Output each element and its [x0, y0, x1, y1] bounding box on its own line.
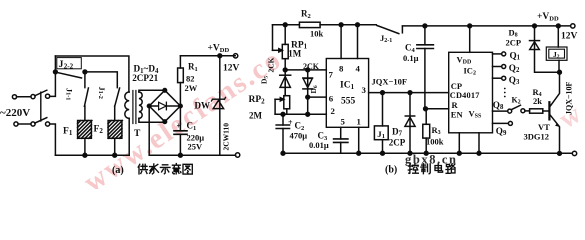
IC1 555 box — [326, 59, 368, 128]
wire RP1 to D5 — [283, 68, 287, 72]
label + C1 — [177, 121, 197, 132]
svg-text:VDD: VDD — [457, 55, 472, 66]
label + C2 — [288, 118, 304, 132]
+VDD terminal right — [571, 24, 575, 28]
label J1-1 rotated — [65, 88, 74, 100]
wire from upper switch to J2-2 node — [50, 56, 56, 96]
capacitor C1 — [179, 106, 181, 131]
transformer T secondary winding — [139, 92, 142, 118]
svg-text:470μ: 470μ — [290, 131, 308, 141]
relay contact J1-1 — [84, 88, 88, 106]
label D7 — [392, 126, 403, 137]
svg-text:2k: 2k — [533, 96, 542, 106]
bridge vertex junction dots — [163, 89, 167, 93]
top rail right segment (+VDD) — [402, 25, 570, 27]
label D6 rotated — [309, 85, 319, 93]
svg-text:Q8: Q8 — [493, 100, 504, 111]
svg-text:R3: R3 — [432, 125, 441, 136]
main switch upper blade — [35, 90, 47, 96]
svg-text:+: + — [288, 118, 293, 127]
svg-text:RP2: RP2 — [249, 95, 266, 105]
svg-text:7: 7 — [329, 70, 334, 80]
output terminal lower — [235, 153, 239, 157]
resistor R1 — [178, 68, 184, 83]
label R1 — [188, 62, 198, 73]
wire top rail of mains section — [55, 56, 128, 92]
label IC1 — [340, 81, 355, 91]
label 2CP (D7) — [389, 137, 406, 147]
top rail left segment (555 side) — [273, 24, 377, 26]
wire pin6 row — [308, 96, 327, 98]
svg-text:2W: 2W — [185, 83, 198, 93]
wire primary bottom — [128, 118, 130, 155]
svg-text:+VDD: +VDD — [208, 44, 230, 55]
svg-text:12V: 12V — [223, 64, 240, 74]
label RP2 — [249, 95, 266, 105]
bridge rectifier D1-D4 diamond — [149, 90, 180, 121]
relay contact J2-1 — [377, 26, 399, 34]
svg-text:+: + — [177, 122, 182, 131]
label 2M — [249, 110, 263, 120]
svg-text:EN: EN — [451, 110, 464, 120]
output Q1 — [493, 53, 502, 55]
AC source terminal lower — [14, 122, 18, 126]
svg-text:0.1μ: 0.1μ — [403, 53, 419, 63]
svg-text:VT: VT — [538, 122, 550, 132]
wire upper pole — [17, 96, 31, 98]
label 0.01u — [309, 140, 329, 150]
+VDD terminal — [233, 54, 237, 58]
svg-text:6: 6 — [329, 94, 334, 104]
caption hanzi kong zhi dian lu (drawn) — [408, 164, 455, 174]
svg-text:2: 2 — [331, 106, 336, 116]
relay coil J2 — [557, 26, 559, 47]
output Q9 — [493, 122, 509, 124]
wire secondary bottom to bridge — [139, 118, 165, 122]
label +VDD — [208, 44, 230, 55]
output Q3 — [493, 77, 502, 79]
caption hanzi gong shui shi yi tu (drawn) — [138, 164, 192, 175]
label D5 rotated — [260, 76, 270, 84]
svg-text:J2-1: J2-1 — [380, 33, 392, 44]
svg-text:IC1: IC1 — [340, 81, 355, 91]
svg-text:J: J — [59, 59, 64, 70]
svg-text:Q2: Q2 — [509, 63, 520, 74]
svg-text:10k: 10k — [310, 29, 324, 39]
switch K2 — [508, 109, 512, 113]
svg-text:D6: D6 — [309, 85, 319, 93]
label DW — [195, 101, 211, 111]
capacitor C2 — [282, 114, 284, 125]
svg-text:CP: CP — [451, 81, 462, 91]
resistor R2 — [299, 22, 320, 27]
label 2CK (D6) — [303, 62, 320, 71]
ellipsis dots — [504, 88, 506, 98]
potentiometer RP2 — [275, 98, 281, 100]
label RP1 — [291, 40, 308, 50]
svg-text:R1: R1 — [188, 62, 198, 73]
main switch lower contact circles — [31, 122, 35, 126]
label 1M — [288, 48, 302, 58]
IC2 CD4017 box — [449, 52, 493, 133]
wire J1-2 to F2 — [114, 106, 116, 121]
caption (b) — [385, 165, 397, 176]
wire pin4 to rail — [357, 25, 359, 59]
wire F2 to bottom rail — [114, 138, 116, 155]
svg-text:JQX−10F: JQX−10F — [372, 77, 408, 87]
svg-text:J1: J1 — [377, 129, 385, 140]
svg-text:8: 8 — [339, 64, 344, 74]
wire J1-1 to F1 — [84, 106, 86, 121]
svg-text:T: T — [134, 129, 141, 139]
bottom rail section b — [283, 152, 572, 154]
resistor R3 — [424, 107, 428, 111]
bottom rail rectifier side — [149, 154, 235, 156]
solenoid F2 — [108, 121, 122, 139]
label J1-2 rotated — [97, 87, 106, 99]
svg-text:2CW110: 2CW110 — [222, 123, 231, 151]
svg-text:D7: D7 — [392, 126, 403, 137]
label 100k — [426, 137, 444, 147]
svg-text:1M: 1M — [288, 48, 302, 58]
caption (a) — [112, 165, 124, 176]
label J2-2 — [59, 59, 74, 70]
wire lower switch to bottom rail — [50, 124, 56, 155]
label R3 — [432, 125, 441, 136]
label JQX-10F — [372, 77, 408, 87]
wire bridge minus to bottom rail — [148, 106, 150, 155]
svg-text:3DG12: 3DG12 — [524, 132, 550, 142]
label R2 — [301, 9, 311, 20]
label 555 — [341, 97, 356, 107]
svg-text:R2: R2 — [301, 9, 311, 20]
main switch lower blade — [35, 118, 47, 124]
AC source terminal upper ~220V — [12, 95, 16, 99]
label 82 — [186, 74, 195, 84]
svg-text:Q1: Q1 — [510, 50, 521, 61]
bottom rail mains side — [55, 154, 129, 156]
label 2CP21 — [132, 73, 158, 83]
svg-text:(b): (b) — [385, 165, 397, 176]
wire F1 to bottom rail — [84, 138, 86, 155]
wire F1 branch top — [84, 72, 86, 88]
svg-text:1: 1 — [357, 117, 361, 127]
wire pins 2-6 tie — [307, 97, 309, 114]
diode D5 — [280, 74, 291, 76]
capacitor C3 — [334, 139, 348, 143]
wire VDD pin — [469, 26, 471, 52]
capacitor C4 — [424, 26, 426, 45]
IC2 labels — [450, 55, 482, 120]
wire pin7 row — [285, 69, 326, 71]
svg-text:12V: 12V — [561, 32, 578, 42]
label D1~D4 — [134, 64, 159, 75]
svg-text:25V: 25V — [188, 142, 204, 152]
label 220u — [187, 133, 205, 143]
watermark pink diagonal text — [78, 43, 585, 199]
wire secondary top to bridge — [139, 90, 165, 92]
wire pin2 row — [308, 113, 327, 115]
svg-text:0.01μ: 0.01μ — [309, 140, 329, 150]
wire lower pole — [18, 123, 31, 125]
label J2-1 — [380, 33, 392, 44]
svg-text:2CP: 2CP — [506, 38, 522, 48]
label 0.1u — [403, 53, 419, 63]
main switch linkage — [40, 92, 42, 121]
svg-text:IC2: IC2 — [464, 66, 476, 77]
label 10k — [310, 29, 324, 39]
transformer core — [133, 91, 136, 124]
svg-text:5: 5 — [341, 117, 346, 127]
diode D7 — [409, 93, 411, 154]
diode D6 — [307, 70, 309, 97]
svg-text:~220V: ~220V — [0, 107, 30, 119]
label 25V — [188, 142, 204, 152]
wire to F2 branch — [85, 72, 117, 88]
label 2W — [185, 83, 198, 93]
svg-text:J1-1: J1-1 — [65, 88, 74, 100]
label C4 — [405, 43, 416, 54]
label gbx8.cn — [405, 153, 458, 167]
svg-text:2M: 2M — [249, 110, 263, 120]
svg-text:R: R — [452, 100, 459, 110]
relay contact J2-2 — [54, 70, 58, 74]
svg-text:VSS: VSS — [469, 109, 482, 120]
label F1 — [63, 127, 73, 138]
svg-text:J1-2: J1-2 — [97, 87, 106, 99]
wire rail corner down to RP1 wiper — [272, 25, 274, 51]
svg-text:+VDD: +VDD — [537, 12, 559, 23]
label C3 — [318, 131, 329, 142]
ground terminal right — [572, 151, 576, 155]
svg-text:Q9: Q9 — [496, 126, 507, 137]
label T — [134, 129, 141, 139]
label F2 — [94, 125, 104, 136]
svg-text:DW: DW — [195, 101, 211, 111]
wire bridge plus up — [179, 83, 181, 106]
label 2CK rotated (D5) — [267, 57, 276, 72]
output Q8 — [493, 110, 508, 112]
bridge internal diode — [152, 105, 179, 107]
svg-text:2CK: 2CK — [303, 62, 320, 71]
label 12V — [223, 64, 240, 74]
label 470u — [290, 131, 308, 141]
relay coil J1 — [382, 93, 384, 126]
main switch upper contact circles — [31, 95, 35, 99]
wire pin3 row to CP — [369, 92, 449, 94]
+VDD rail section a — [180, 55, 235, 57]
wire VSS to ground — [458, 133, 460, 153]
svg-text:J2: J2 — [553, 50, 560, 60]
svg-text:(a): (a) — [112, 165, 124, 176]
potentiometer RP1 — [273, 49, 281, 51]
transformer T primary winding — [125, 92, 129, 118]
svg-text:3: 3 — [362, 85, 367, 95]
svg-text:2CP: 2CP — [389, 137, 406, 147]
diode D8 — [535, 26, 560, 72]
555 pin labels — [329, 64, 367, 127]
label box J2-2 — [57, 58, 82, 69]
wire EN to ground — [478, 133, 480, 153]
svg-text:4: 4 — [356, 64, 361, 74]
output Q2 — [493, 66, 502, 68]
svg-text:CD4017: CD4017 — [450, 91, 480, 100]
wire reset row — [426, 108, 449, 110]
transistor VT 3DG12 — [548, 102, 550, 119]
svg-text:Q3: Q3 — [509, 75, 520, 86]
svg-text:F2: F2 — [94, 125, 104, 136]
svg-text:K2: K2 — [512, 96, 521, 106]
relay contact J1-2 — [115, 88, 120, 106]
wire pin5 to C3 — [340, 127, 342, 139]
label 12V right — [561, 32, 578, 42]
wire pin8 to rail — [340, 25, 342, 59]
wire timing node row — [275, 113, 308, 115]
zener DW — [219, 56, 221, 99]
svg-text:100k: 100k — [426, 137, 444, 147]
svg-text:2CK: 2CK — [267, 57, 276, 72]
label +VDD right — [537, 12, 559, 23]
svg-text:2CP21: 2CP21 — [132, 73, 158, 83]
solenoid F1 — [78, 121, 92, 139]
svg-text:F1: F1 — [63, 127, 73, 138]
svg-text:JQX−10F: JQX−10F — [565, 81, 574, 115]
label 2CW110 rotated — [222, 123, 231, 151]
label JQX-10F rotated — [565, 81, 574, 115]
svg-text:82: 82 — [186, 74, 195, 84]
svg-text:2-2: 2-2 — [64, 62, 74, 70]
svg-text:555: 555 — [341, 97, 356, 107]
wire pin1 to ground — [358, 127, 360, 153]
resistor R4 — [525, 110, 530, 112]
